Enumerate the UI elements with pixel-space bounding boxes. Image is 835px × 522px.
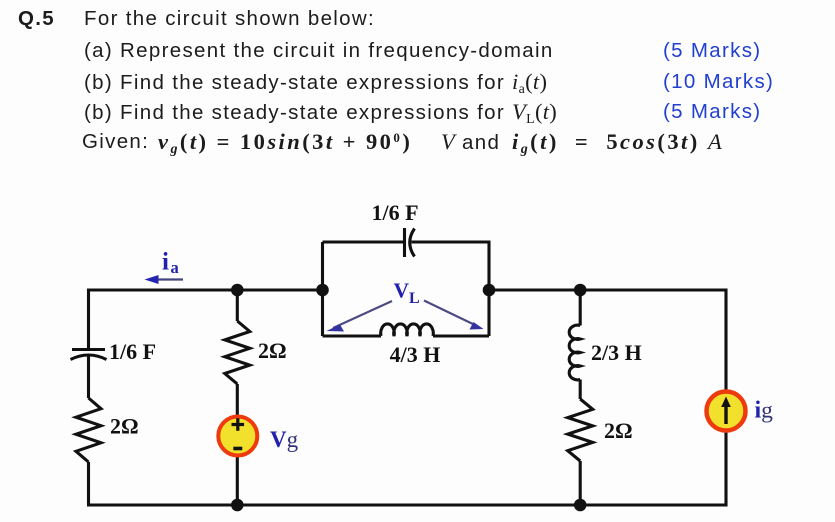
svg-text:4/3 H: 4/3 H	[390, 342, 441, 367]
svg-text:ig: ig	[755, 398, 774, 424]
svg-text:VL: VL	[394, 279, 420, 308]
svg-text:2Ω: 2Ω	[110, 414, 139, 439]
svg-text:1/6 F: 1/6 F	[109, 339, 156, 364]
svg-text:2/3 H: 2/3 H	[591, 340, 642, 365]
svg-text:2Ω: 2Ω	[258, 338, 287, 363]
svg-text:1/6 F: 1/6 F	[371, 200, 418, 225]
svg-text:ia: ia	[162, 249, 179, 278]
svg-text:2Ω: 2Ω	[604, 418, 633, 443]
svg-text:Vg: Vg	[270, 427, 299, 452]
